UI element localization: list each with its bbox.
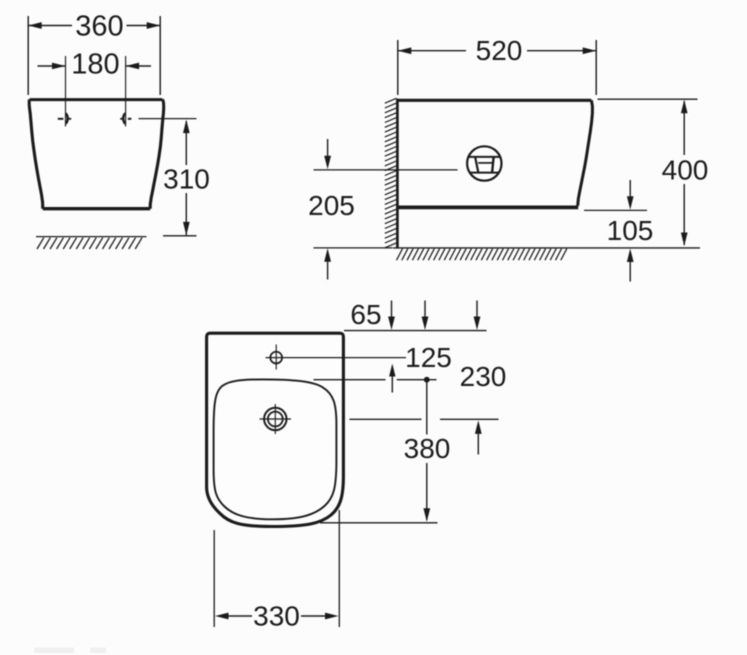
svg-text:125: 125 [405,342,452,373]
svg-text:380: 380 [404,433,451,464]
svg-text:180: 180 [71,49,119,81]
svg-text:400: 400 [662,154,709,185]
svg-text:360: 360 [75,11,123,43]
svg-text:205: 205 [308,190,355,221]
svg-text:105: 105 [607,215,654,246]
svg-text:330: 330 [253,601,300,632]
svg-text:520: 520 [476,35,523,66]
svg-text:310: 310 [163,164,210,195]
svg-text:230: 230 [460,361,507,392]
svg-text:65: 65 [350,299,381,330]
